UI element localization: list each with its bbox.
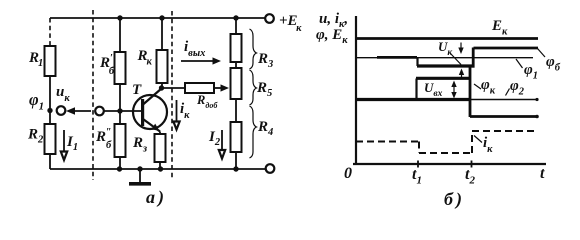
terminal bottom right (266, 164, 275, 173)
svg-text:iвых: iвых (184, 39, 205, 59)
svg-text:б): б) (444, 189, 462, 210)
svg-text:T: T (132, 82, 142, 98)
svg-text:0: 0 (344, 165, 352, 182)
transistor T (133, 95, 167, 129)
trace phiK after t2 (470, 115, 537, 118)
trace phi_b base (377, 56, 417, 59)
svg-text:I2: I2 (208, 129, 221, 148)
svg-text:uк: uк (56, 84, 70, 104)
resistor Rk (159, 15, 164, 20)
terminal +Ek (265, 14, 274, 23)
trace input pulse baseline / phiK (357, 98, 470, 101)
arrow up to line A (461, 72, 463, 79)
brace R5 (250, 70, 257, 105)
wire boundary dashed 1 (92, 10, 94, 180)
arrow u_k (73, 110, 91, 112)
wire base (104, 110, 142, 112)
svg-text:Rз: Rз (132, 135, 147, 155)
svg-text:Rк: Rк (137, 48, 153, 68)
terminal input right (95, 107, 104, 116)
step t2 collector (469, 66, 472, 118)
trace phi2 level (470, 99, 537, 101)
svg-text:φ1: φ1 (29, 90, 44, 113)
brace R4 (250, 106, 257, 158)
resistor Re (159, 132, 161, 135)
svg-text:R4: R4 (257, 119, 273, 138)
svg-text:φ2: φ2 (510, 78, 525, 98)
wire R1 to node (49, 76, 51, 110)
resistor R3 (233, 15, 238, 20)
svg-text:Rдоб: Rдоб (196, 93, 218, 110)
resistor R'b (119, 18, 121, 52)
svg-text:R3: R3 (257, 51, 273, 70)
svg-text:I1: I1 (66, 134, 78, 153)
svg-text:R2: R2 (27, 127, 44, 146)
node base divider (117, 108, 122, 113)
svg-text:φб: φб (546, 54, 561, 74)
wire dashed source branch (49, 18, 51, 46)
resistor R4 (231, 122, 242, 152)
tick t1 (417, 161, 419, 168)
brace R3 (250, 29, 257, 69)
node phi1 (47, 108, 52, 113)
node collector (159, 85, 164, 90)
tick t2 (471, 161, 473, 168)
svg-text:Uвх: Uвх (424, 80, 443, 99)
wire boundary dashed 2 (171, 11, 173, 180)
arrow ik (176, 100, 178, 123)
wire top rail (50, 17, 265, 19)
svg-text:R″б: R″б (95, 127, 112, 151)
svg-text:Uк: Uк (438, 39, 453, 58)
svg-text:R′б: R′б (99, 53, 115, 77)
resistor R1 (45, 46, 56, 76)
svg-text:φ1: φ1 (524, 62, 538, 82)
axis x (353, 163, 546, 165)
resistor R5 (231, 68, 242, 99)
svg-text:t: t (540, 165, 545, 182)
svg-text:φк: φк (481, 77, 496, 97)
svg-text:iк: iк (483, 135, 493, 155)
svg-text:R5: R5 (256, 80, 272, 99)
svg-text:+Eк: +Eк (279, 13, 302, 34)
wire bottom rail (50, 168, 265, 170)
svg-text:t1: t1 (412, 166, 422, 187)
trace phi1 level (357, 57, 533, 59)
svg-text:R1: R1 (28, 50, 43, 69)
trace ik dashed (356, 141, 419, 143)
ground (137, 166, 142, 171)
arrow I1 (63, 130, 65, 152)
axis y (355, 16, 357, 164)
resistor R''b (119, 111, 121, 124)
trace Ek (357, 37, 538, 40)
svg-text:а): а) (146, 187, 164, 208)
resistor Rdob (162, 87, 186, 89)
svg-text:iк: iк (180, 101, 190, 121)
svg-text:Eк: Eк (491, 18, 508, 38)
terminal input left (57, 106, 66, 115)
svg-text:t2: t2 (465, 166, 475, 187)
resistor R2 (49, 112, 51, 124)
wire R2 to rail (49, 154, 51, 169)
